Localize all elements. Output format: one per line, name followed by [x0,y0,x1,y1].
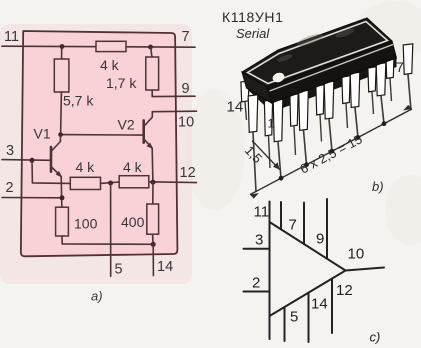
transistor V1 collector [51,135,61,152]
resistor R1 4k (top horizontal) [96,41,126,51]
wire: V2 emitter down to pin 12 node [151,148,154,182]
wire: R5 to pin 12 [149,181,197,184]
svg-text:4 k: 4 k [76,159,96,175]
transistor V2 emitter arrow [147,143,152,148]
bottom-left corner line (symbol) [269,316,271,339]
wire: V1 emitter down to R6 [60,177,63,207]
svg-text:12: 12 [336,282,353,299]
resistor R2 5,7k (vertical) with leads [61,47,63,60]
junction: R5 / V2 emitter / R7 [151,180,156,185]
svg-text:2: 2 [6,180,14,196]
transistor V1 base wire from pin 3 [2,159,51,162]
svg-text:4 k: 4 k [100,57,120,73]
svg-text:2: 2 [252,275,260,292]
junction: pin 2 / emitter branch [60,195,65,200]
dimension leader 1,5 [252,141,280,170]
package body left end face [242,72,272,103]
package chamfer highlight between top and front faces [270,45,394,92]
transistor V1 base bar [50,147,53,172]
svg-text:3: 3 [255,232,263,249]
wire: R4 to R5 [101,182,120,183]
texture specks on package top [277,27,356,63]
svg-text:11: 11 [254,204,270,221]
wire: pin 14 lead (vertical) [152,244,154,275]
svg-text:c): c) [370,330,381,345]
wire: R6 bottom to ground rail [62,236,153,244]
wire: feedback branch from pin3 node to emitter / R4 [32,160,70,183]
transistor V2 base bar [142,120,145,142]
svg-text:100: 100 [74,216,98,232]
svg-text:14: 14 [311,296,328,313]
junction: ground rail / R7 / pin 14 [151,242,156,247]
junction: R2 / V1 collector [58,132,63,137]
svg-text:12: 12 [180,165,196,181]
package body front face [267,41,397,103]
junction: pin 3 wire / feedback branch [30,158,35,163]
svg-text:10: 10 [178,115,194,131]
svg-text:1,5: 1,5 [242,143,265,166]
package body top face [242,18,392,87]
pin 2 input line (symbol) [244,291,270,293]
pin 9 line (symbol) [303,203,305,245]
package back-row pins [241,81,249,102]
transistor V1 emitter arrow [56,172,61,177]
package top face highlight outline [248,22,388,84]
wire: pin 2 lead [2,197,62,199]
junction: rail / R2 [60,44,65,49]
wire: top supply rail from pin 11 to pin 7 [2,46,195,47]
package underside shadow band [247,57,397,112]
svg-text:11: 11 [4,29,19,45]
wire: V1 collector node to V2 base [61,134,144,137]
resistor R7 400 (vertical) with leads [152,182,154,204]
svg-text:14: 14 [227,99,244,116]
amplifier symbol triangle (fig c) [270,222,346,316]
resistor R5 4k (right horizontal) [119,176,149,188]
package pin-1 index dot [271,71,285,84]
transistor V2 collector and pin 10 lead [144,111,197,126]
svg-text:4 k: 4 k [123,159,143,175]
svg-text:7: 7 [289,217,297,234]
svg-text:5,7 k: 5,7 k [63,93,94,109]
svg-text:7: 7 [182,29,190,45]
junction: R4/R5/pin5 [108,181,113,186]
pin 14 line (symbol) [308,293,310,342]
svg-text:5: 5 [290,309,298,326]
dimension line 6 x 2,5 = 15 [250,109,412,195]
svg-text:9: 9 [182,81,190,97]
svg-text:9: 9 [316,231,324,248]
dimension tick dots at pin needle tips [279,121,387,180]
pin 3 input line (symbol) [244,248,270,250]
svg-text:3: 3 [6,143,14,159]
svg-text:1,7 k: 1,7 k [106,75,137,91]
svg-text:7: 7 [396,59,404,75]
resistor R6 100 (vertical) [56,207,69,236]
resistor R4 4k (left horizontal) [70,177,100,189]
svg-text:5: 5 [115,262,123,278]
pin 5 line (symbol) [284,307,286,341]
top corrector line (symbol) [326,199,328,259]
svg-text:a): a) [91,289,103,304]
transistor V2 emitter [144,139,153,148]
transistor V1 emitter [51,167,61,177]
svg-text:V2: V2 [118,117,135,133]
svg-text:14: 14 [157,259,173,275]
svg-text:К118УН1: К118УН1 [222,9,283,25]
pin 11 line (top-left corner) [269,202,271,223]
resistor R3 1,7k (vertical) with leads [151,47,152,57]
pin 7 line (symbol) [280,202,282,229]
IC K118UN1 internal schematic boundary box [21,31,178,256]
pin 12 line (symbol) [331,279,333,333]
svg-text:1: 1 [268,117,275,131]
wire: pin 5 lead (vertical) [110,183,112,276]
package front-row pins 1..7 [248,95,258,133]
svg-text:b): b) [372,179,384,194]
svg-text:400: 400 [121,214,145,230]
pin 10 output line (symbol) [346,268,385,271]
svg-text:Serial: Serial [236,26,270,41]
pink page tint behind schematic [0,24,192,284]
junction: rail / R3 [148,45,153,50]
svg-text:10: 10 [348,246,365,263]
wire: R3 bottom to pin 9 [152,90,195,97]
faint scan shading blobs [185,2,421,245]
svg-text:V1: V1 [34,126,51,142]
